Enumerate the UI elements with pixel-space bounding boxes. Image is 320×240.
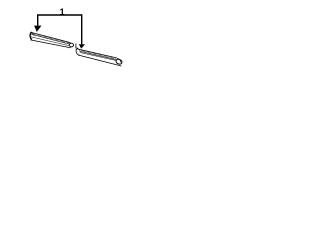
leader bracket bbox=[38, 15, 82, 44]
right moulding: mid crease line bbox=[80, 53, 116, 61]
arrow to right moulding bbox=[79, 44, 85, 48]
right moulding: bottom edge bbox=[78, 55, 121, 66]
right moulding: top edge bbox=[79, 49, 116, 57]
left moulding: top edge bbox=[31, 32, 71, 42]
left moulding: left end cap bbox=[30, 32, 32, 39]
left moulding: bottom edge bbox=[30, 40, 71, 48]
right moulding: hatches bbox=[80, 50, 116, 60]
right moulding: right tip loop bbox=[115, 58, 122, 65]
left moulding: front face fill bbox=[30, 32, 77, 48]
right moulding: left end cap curl bbox=[76, 49, 80, 56]
left moulding: cap inner tick bbox=[33, 34, 34, 36]
left moulding: right end face bbox=[76, 44, 78, 49]
right moulding: tip top curve bbox=[117, 58, 122, 63]
arrow to left moulding bbox=[34, 26, 41, 32]
right moulding: front face fill bbox=[78, 49, 121, 65]
left moulding: mid crease line bbox=[31, 37, 69, 46]
left moulding: right tip loop bbox=[69, 43, 74, 48]
left moulding: hatch-band bottom line bbox=[31, 34, 71, 44]
left moulding: hatches bbox=[31, 32, 70, 44]
right moulding: hatch-band bottom line bbox=[80, 51, 117, 59]
